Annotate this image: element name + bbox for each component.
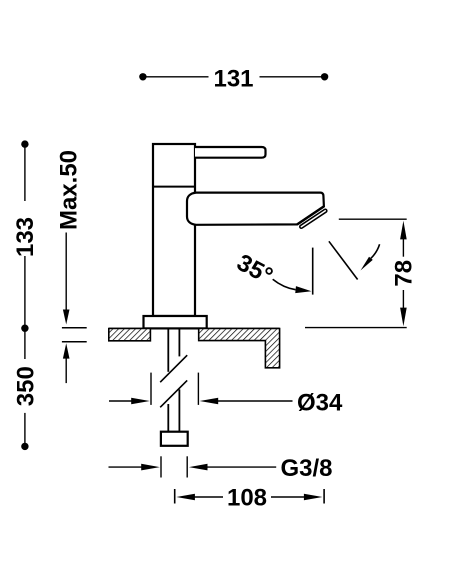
- dimension 131 line right segment: [260, 76, 325, 78]
- Max.50 down arrowhead: [63, 310, 70, 325]
- aerator strip at spout tip: [301, 211, 325, 227]
- dimension Ø34 right extension tick: [197, 373, 199, 405]
- dimension 108 right arrowhead: [304, 494, 323, 501]
- connector nut: [161, 432, 188, 446]
- dimension Ø34 right arrow tail: [216, 400, 292, 402]
- dimension 133 bottom dot (shared with 350): [21, 325, 28, 332]
- dimension 108 right line: [271, 496, 306, 498]
- dimension G3/8 right arrowhead: [189, 464, 208, 471]
- dimension G3/8 left extension tick: [160, 456, 162, 477]
- Max.50 lower tick (counter bottom): [62, 341, 87, 343]
- dimension 350 line lower segment: [24, 413, 26, 447]
- Max.50 up arrow tail: [65, 357, 67, 383]
- Max.50 upper tick (counter top): [62, 327, 87, 329]
- dimension 108 left arrowhead: [176, 494, 195, 501]
- svg-text:108: 108: [227, 485, 267, 512]
- Max.50 up arrowhead: [63, 343, 70, 358]
- svg-text:Ø34: Ø34: [297, 390, 343, 417]
- 78 bottom reference line: [305, 327, 407, 329]
- dimension 131 line left segment: [143, 76, 209, 78]
- supply pipe upper right line: [178, 329, 180, 357]
- 35 degree leader arc: [273, 279, 296, 290]
- dimension G3/8 left arrowhead: [141, 464, 160, 471]
- dimension 133 line upper segment: [24, 144, 26, 201]
- dimension 78 top arrowhead: [400, 221, 407, 240]
- base plate: [144, 316, 207, 328]
- 35 degree leader arrowhead: [295, 286, 311, 293]
- head/body joint line: [153, 186, 195, 188]
- dimension 78 lower line: [402, 290, 404, 309]
- faucet body outline: [153, 144, 195, 316]
- counter top surface line: [109, 328, 280, 330]
- dimension 131 left dot: [139, 73, 146, 80]
- dimension 108 left tick: [174, 489, 176, 504]
- dimension G3/8 right arrow tail: [206, 466, 277, 468]
- counter left hatched slab: [109, 329, 151, 341]
- pipe break diagonal 2: [160, 380, 187, 407]
- dimension 133 line lower segment: [24, 256, 26, 328]
- Max.50 down leader line: [65, 233, 67, 312]
- supply pipe upper left line: [167, 329, 169, 372]
- spout outline: [187, 193, 324, 225]
- dimension G3/8 right extension tick: [186, 456, 188, 477]
- dimension 78 upper line: [402, 238, 404, 257]
- dimension 108 right tick: [323, 489, 325, 504]
- supply pipe lower left line: [167, 404, 169, 432]
- dimension G3/8 left arrow tail: [109, 466, 144, 468]
- spout angled cut line: [297, 206, 324, 224]
- dimension Ø34 left arrowhead: [131, 398, 150, 405]
- svg-text:78: 78: [391, 260, 418, 287]
- 35 degree vertical reference line: [312, 248, 314, 295]
- dimension 78 bottom arrowhead: [400, 308, 407, 327]
- pipe break diagonal 1: [160, 355, 187, 382]
- dimension Ø34 left extension tick: [150, 373, 152, 405]
- svg-text:131: 131: [213, 65, 253, 92]
- counter right hatched slab with front edge: [199, 329, 280, 368]
- stream curved arrow arc: [371, 244, 380, 258]
- svg-text:350: 350: [13, 366, 40, 406]
- stream curved arrowhead: [361, 257, 373, 271]
- 78 top reference line: [339, 218, 407, 220]
- dimension 350 bottom dot: [21, 443, 28, 450]
- water stream line: [329, 241, 358, 279]
- dimension 350 line upper segment: [24, 328, 26, 359]
- svg-text:133: 133: [12, 217, 39, 257]
- dimension Ø34 right arrowhead: [200, 398, 219, 405]
- supply pipe lower right line: [178, 389, 180, 431]
- dimension Ø34 left arrow tail: [109, 400, 133, 402]
- dimension 133 top dot: [21, 140, 28, 147]
- svg-text:G3/8: G3/8: [281, 455, 333, 482]
- handle lever: [195, 147, 266, 158]
- dimension 108 left line: [193, 496, 223, 498]
- dimension 131 right dot: [321, 73, 328, 80]
- svg-text:Max.50: Max.50: [56, 150, 83, 230]
